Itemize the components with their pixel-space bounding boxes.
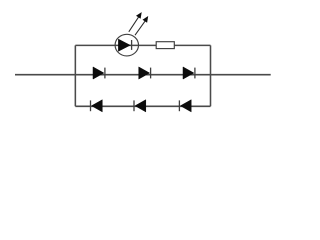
diode D4 triangle bbox=[183, 67, 194, 79]
diode D2 cathode bar bbox=[104, 68, 106, 79]
wire right side of loop bbox=[210, 45, 212, 106]
LED D1 light arrow 1 shaft bbox=[129, 16, 140, 32]
diode D2 triangle bbox=[93, 67, 104, 79]
diode D7 cathode bar bbox=[178, 100, 180, 111]
diode D3 triangle bbox=[139, 67, 150, 79]
diode D5 cathode bar bbox=[90, 100, 92, 111]
diode D4 cathode bar bbox=[194, 68, 196, 79]
LED D1 light arrow 1 head bbox=[136, 12, 142, 19]
LED D1 light arrow 2 head bbox=[143, 16, 149, 23]
wire main horizontal net bbox=[15, 74, 271, 76]
wire top side right segment bbox=[174, 44, 210, 46]
diode D5 triangle bbox=[92, 100, 103, 112]
wire bottom side of loop bbox=[75, 105, 210, 107]
diode D6 triangle bbox=[135, 100, 146, 112]
LED D1 circle bbox=[115, 34, 138, 56]
diode D6 cathode bar bbox=[133, 100, 135, 111]
wire left side of loop bbox=[74, 45, 76, 106]
diode D3 cathode bar bbox=[150, 68, 152, 79]
resistor R1 body bbox=[156, 42, 174, 49]
LED D1 light arrow 2 shaft bbox=[135, 20, 146, 35]
LED D1 cathode bar bbox=[131, 40, 133, 50]
wire top side left segment bbox=[75, 44, 156, 46]
LED D1 diode triangle bbox=[118, 39, 130, 51]
diode D7 triangle bbox=[180, 100, 191, 112]
